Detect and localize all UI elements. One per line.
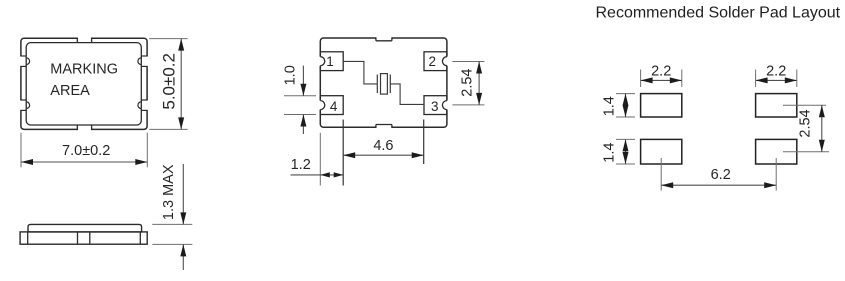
bottom view top notch — [376, 37, 392, 39]
dimension 7.0±0.2 line — [21, 161, 147, 163]
svg-text:1.0: 1.0 — [283, 65, 299, 85]
dimension 1.0 arrows — [302, 66, 304, 96]
side view body divider left — [27, 232, 29, 244]
dimension 2.2 right line — [756, 79, 797, 81]
dimension 2.54 witness lines — [452, 61, 484, 63]
dimension 2.54 line — [478, 62, 480, 105]
svg-text:1: 1 — [326, 54, 334, 69]
side view lid — [28, 224, 142, 232]
svg-text:2.2: 2.2 — [766, 63, 786, 79]
svg-text:4: 4 — [330, 99, 338, 114]
wire crystal to pad3 — [390, 84, 423, 105]
solder pad top-right — [756, 94, 797, 117]
pad 4 — [320, 96, 343, 115]
svg-text:6.2: 6.2 — [711, 167, 731, 183]
svg-text:4.6: 4.6 — [373, 138, 393, 154]
dimension 1.3 MAX witness lines — [152, 223, 192, 225]
dimension 7.0±0.2 witness lines — [20, 133, 22, 168]
castellation pad 1 — [319, 57, 321, 66]
dimension 1.4 top ticks — [616, 93, 635, 95]
svg-text:3: 3 — [431, 99, 439, 114]
solder pad bottom-left — [641, 139, 682, 164]
dimension 1.3 MAX arrows — [182, 164, 184, 224]
dimension 5.0±0.2 witness lines — [149, 38, 187, 40]
pad 1 — [320, 52, 343, 71]
castellation right bottom — [146, 100, 148, 110]
svg-text:2.54: 2.54 — [798, 109, 814, 137]
dimension 6.2 line — [661, 184, 776, 186]
dimension 2.2 left ticks — [640, 70, 642, 88]
pad 2 — [424, 52, 447, 71]
dimension 2.54 extension lines — [783, 104, 826, 106]
dimension 4.6 line — [343, 154, 424, 156]
svg-text:1.4: 1.4 — [602, 96, 618, 116]
dimension 1.4 top line — [625, 94, 627, 117]
pad 3 — [424, 96, 447, 115]
svg-text:MARKING: MARKING — [50, 61, 118, 77]
side view body divider mid-right — [89, 232, 91, 244]
side view body divider right — [139, 232, 141, 244]
svg-text:2.54: 2.54 — [460, 68, 476, 96]
dimension 1.4 bottom ticks — [616, 138, 635, 140]
solder pad top-left — [641, 94, 682, 117]
svg-text:2.2: 2.2 — [651, 63, 671, 79]
package top view outline — [21, 38, 147, 129]
dimension 1.4 bottom line — [625, 139, 627, 164]
dimension 6.2 extension lines — [660, 158, 662, 191]
dimension 1.2 line — [291, 174, 344, 176]
svg-text:1.4: 1.4 — [602, 143, 618, 163]
wire pad1 to crystal — [343, 61, 377, 84]
castellation pad 2 — [446, 57, 448, 66]
bottom edge notch — [77, 128, 91, 130]
package lid (inner outline) — [26, 43, 141, 125]
dimension 4.6 extension lines — [342, 120, 344, 186]
svg-text:1.2: 1.2 — [291, 157, 311, 173]
crystal left plate — [376, 75, 378, 94]
dimension 5.0±0.2 line — [180, 39, 182, 130]
castellation left bottom — [20, 100, 22, 110]
dimension 1.2 extension line — [319, 133, 321, 186]
svg-text:Recommended Solder Pad Layout: Recommended Solder Pad Layout — [596, 4, 841, 21]
svg-text:7.0±0.2: 7.0±0.2 — [62, 143, 110, 159]
dimension 1.0 witness lines — [284, 95, 316, 97]
dimension 2.2 left line — [641, 79, 682, 81]
svg-text:1.3 MAX: 1.3 MAX — [161, 164, 177, 220]
crystal element X1 — [381, 74, 388, 95]
side view body — [20, 232, 147, 244]
solder pad bottom-right — [756, 139, 797, 164]
castellation left top — [20, 56, 22, 66]
package bottom view outline — [320, 38, 447, 127]
svg-text:AREA: AREA — [50, 83, 90, 99]
top edge notch — [77, 37, 91, 39]
castellation pad 3 — [446, 101, 448, 110]
castellation pad 4 — [319, 101, 321, 110]
svg-text:5.0±0.2: 5.0±0.2 — [159, 53, 178, 110]
crystal right plate — [389, 75, 391, 94]
side view body divider mid-left — [77, 232, 79, 244]
dimension 2.2 right ticks — [755, 70, 757, 88]
castellation right top — [146, 56, 148, 66]
bottom view bottom notch — [376, 126, 392, 128]
svg-text:2: 2 — [428, 54, 436, 69]
dimension 2.54 line — [821, 105, 823, 151]
